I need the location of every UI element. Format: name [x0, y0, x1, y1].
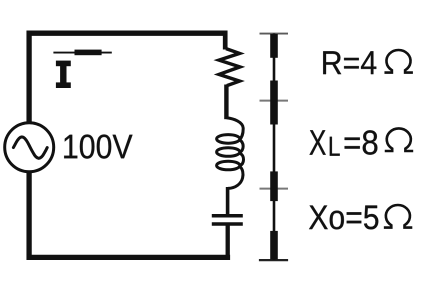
dimension line: thick dash 2	[270, 81, 278, 125]
wire capacitor to bottom	[226, 226, 230, 259]
wire left vertical upper	[26, 31, 31, 124]
wire inductor to capacitor	[226, 187, 230, 215]
tick between XL and Xo	[260, 188, 289, 190]
AC source V1 circle	[5, 123, 54, 172]
inductor L1 coil	[217, 118, 244, 189]
omega symbol row 1	[384, 50, 412, 73]
dimension line: thick dash 1	[270, 34, 278, 58]
omega symbol row 2	[385, 128, 413, 151]
dimension line: thick dash 3	[270, 171, 278, 201]
capacitor C1 bottom plate	[212, 222, 243, 226]
tick top	[260, 33, 289, 35]
wire resistor to inductor	[224, 85, 228, 120]
capacitor C1 top plate	[212, 214, 243, 218]
label XL=8	[310, 130, 326, 154]
resistor R1 zigzag	[219, 49, 240, 86]
wire left vertical lower	[26, 171, 31, 261]
wire right top lead into resistor	[223, 31, 228, 50]
label 100V	[64, 135, 132, 159]
current arrow shaft	[53, 52, 111, 54]
current arrow thick head bar	[75, 50, 102, 56]
wire top horizontal	[27, 31, 228, 36]
omega symbol row 3	[384, 205, 412, 228]
dimension line: thick dash 4	[270, 231, 278, 260]
wire bottom horizontal	[27, 255, 231, 260]
label I (current)	[56, 61, 71, 88]
label R=4	[323, 51, 376, 74]
AC source sine wave	[13, 137, 47, 158]
dimension line: thin vertical	[273, 34, 276, 261]
tick bottom	[259, 259, 288, 261]
tick between R and XL	[260, 100, 289, 102]
label Xo=5	[309, 206, 378, 230]
